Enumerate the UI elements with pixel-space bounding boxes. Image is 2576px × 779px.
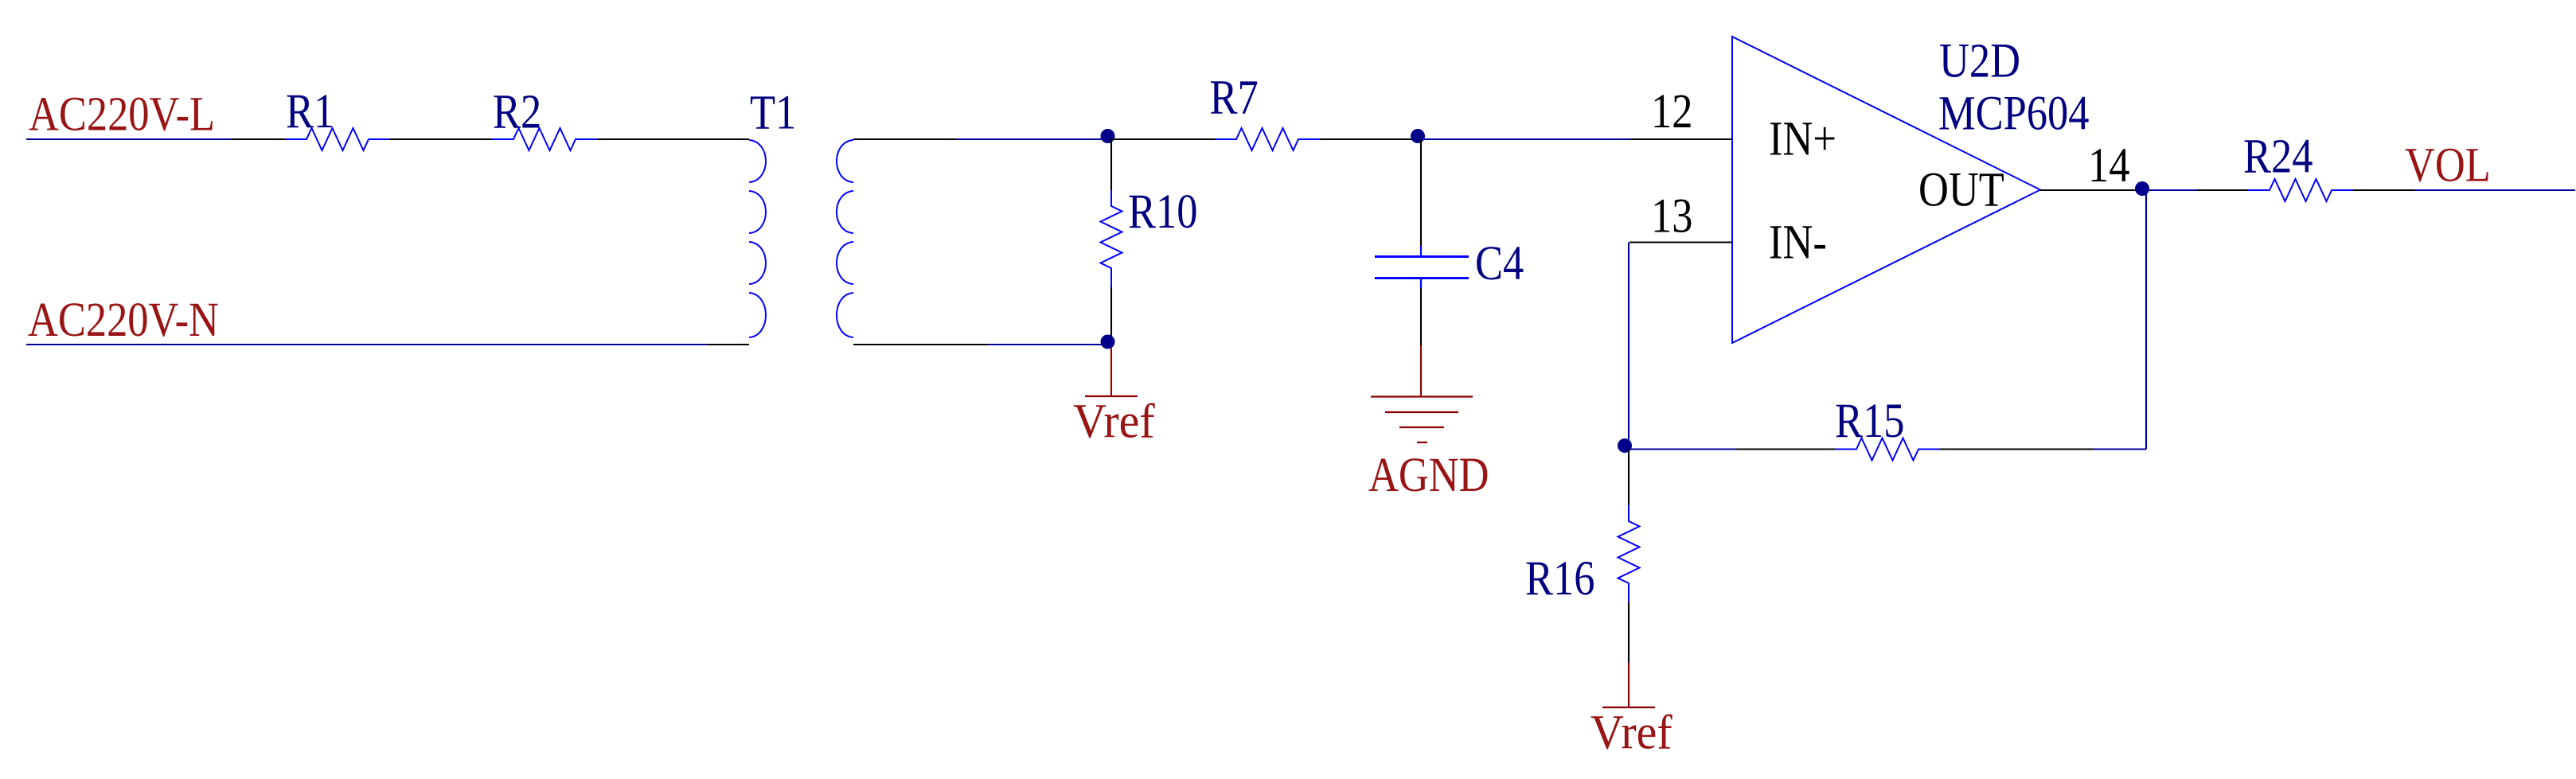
svg-text:R24: R24 <box>2243 130 2313 184</box>
C4 bottom lead <box>1420 279 1422 289</box>
svg-text:AC220V-L: AC220V-L <box>29 88 215 142</box>
wire node B to pin 12 <box>1421 138 1630 140</box>
svg-text:MCP604: MCP604 <box>1938 87 2089 141</box>
wire R10 to bottom node <box>1110 287 1112 342</box>
svg-text:C4: C4 <box>1475 236 1524 290</box>
Vref power bar <box>1085 395 1138 397</box>
wire output node right <box>2142 189 2197 191</box>
resistor R1 <box>285 128 390 150</box>
wire pin 13 down to feedback node <box>1628 243 1630 446</box>
Vref power stub <box>1110 349 1112 396</box>
wire T1 secondary bottom <box>853 344 987 345</box>
svg-text:R1: R1 <box>286 84 334 138</box>
svg-text:R2: R2 <box>493 85 541 139</box>
wire AC220V-L net stub <box>26 138 231 140</box>
wire feedback node to R15 <box>1629 448 1735 450</box>
wire node A to R7 <box>1111 138 1215 140</box>
C4 top lead <box>1420 246 1422 256</box>
wire feedback node down to R16 <box>1628 450 1630 506</box>
wire R16 to Vref <box>1628 602 1630 663</box>
wire R1 to R2 <box>390 138 492 140</box>
wire R15 right <box>1940 448 2094 450</box>
wire secondary bottom to Vref node <box>987 344 1108 345</box>
wire output node down to R15 <box>2145 190 2147 450</box>
wire R24 right <box>2353 189 2414 191</box>
pin 14 output line <box>2040 189 2142 191</box>
Vref power stub 2 <box>1628 663 1630 707</box>
pin 12 line <box>1630 138 1732 140</box>
svg-text:Vref: Vref <box>1073 394 1155 448</box>
junction feedback node <box>1618 438 1632 453</box>
svg-text:R15: R15 <box>1835 394 1904 448</box>
op-amp U2D <box>1732 37 2040 343</box>
capacitor C4 <box>1375 257 1469 278</box>
svg-text:IN+: IN+ <box>1769 112 1836 166</box>
resistor R24 <box>2248 179 2353 201</box>
junction bottom node <box>1101 335 1115 349</box>
svg-text:14: 14 <box>2088 138 2129 193</box>
svg-text:IN-: IN- <box>1769 216 1827 270</box>
svg-text:13: 13 <box>1651 189 1692 243</box>
wire AC220V-L to R1 <box>231 138 285 140</box>
wire AC220V-N to T1 primary bottom <box>708 344 749 345</box>
resistor R16 <box>1618 505 1640 602</box>
svg-text:AC220V-N: AC220V-N <box>28 293 219 347</box>
junction output node <box>2135 181 2149 196</box>
svg-text:12: 12 <box>1651 84 1692 138</box>
resistor R2 <box>492 128 597 150</box>
svg-text:Vref: Vref <box>1590 705 1672 759</box>
svg-text:U2D: U2D <box>1939 34 2020 88</box>
svg-text:T1: T1 <box>750 86 796 140</box>
wire to R15 left lead <box>1735 448 1835 450</box>
junction node B <box>1411 129 1425 143</box>
wire AC220V-N net stub <box>26 344 708 345</box>
junction node A <box>1101 129 1115 143</box>
wire node B down to C4 <box>1420 139 1422 246</box>
resistor R7 <box>1215 128 1320 150</box>
svg-text:VOL: VOL <box>2405 138 2491 193</box>
svg-text:R10: R10 <box>1128 185 1197 239</box>
ground AGND <box>1371 397 1473 443</box>
wire R2 to T1 primary <box>597 138 749 140</box>
Vref power bar 2 <box>1602 707 1655 708</box>
AGND stub <box>1420 345 1422 396</box>
wire C4 to AGND <box>1420 288 1422 345</box>
pin 13 line <box>1630 241 1732 243</box>
wire node A down to R10 <box>1110 139 1112 190</box>
svg-text:R7: R7 <box>1210 71 1259 125</box>
wire R15 to output vertical <box>2094 448 2146 450</box>
wire secondary top to node A <box>956 138 1108 140</box>
wire T1 secondary top <box>853 138 956 140</box>
svg-text:R16: R16 <box>1525 551 1594 606</box>
svg-text:AGND: AGND <box>1368 448 1489 502</box>
wire R7 to node B <box>1320 138 1418 140</box>
resistor R15 <box>1835 438 1940 461</box>
wire VOL net stub <box>2414 189 2575 191</box>
transformer T1 secondary winding <box>837 140 853 337</box>
wire to R24 <box>2197 189 2248 191</box>
resistor R10 <box>1101 190 1122 287</box>
transformer T1 primary winding <box>749 140 766 337</box>
svg-text:OUT: OUT <box>1918 163 2004 217</box>
